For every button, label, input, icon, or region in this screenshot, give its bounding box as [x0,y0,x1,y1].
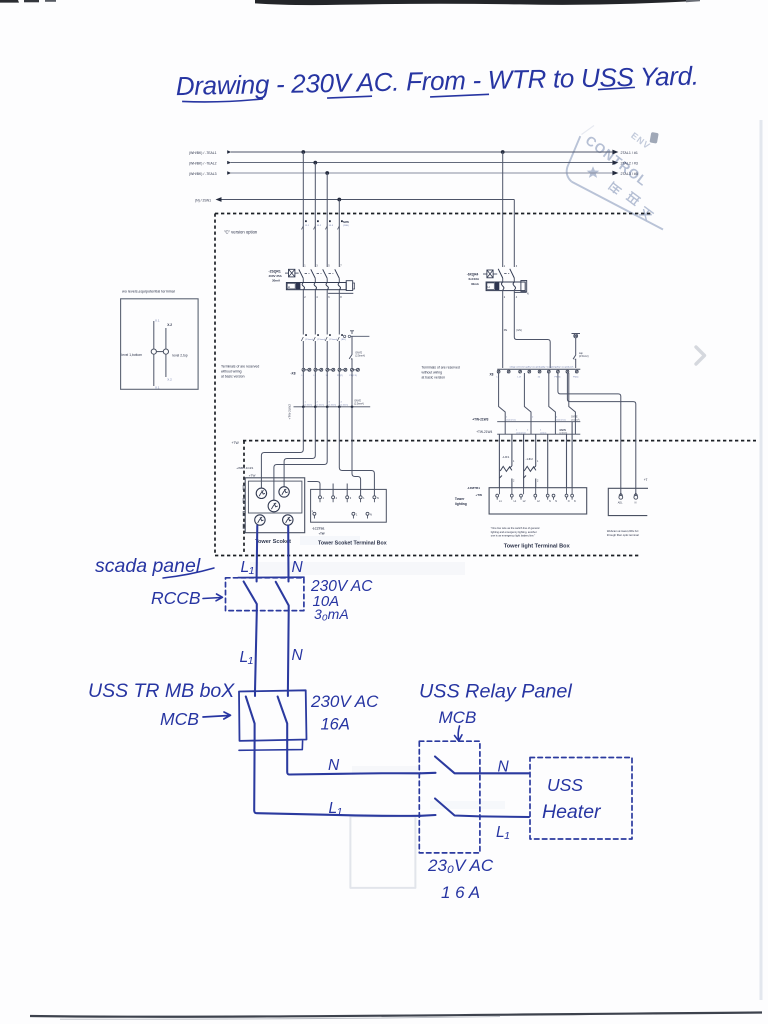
svg-text:(WH/BK) / -7EAL3: (WH/BK) / -7EAL3 [189,172,217,176]
svg-text:2: 2 [317,402,319,404]
svg-text:5/L3: 5/L3 [329,225,334,227]
svg-text:2: 2 [504,296,506,299]
svg-text:L1(2.5mm): L1(2.5mm) [506,420,516,422]
svg-text:4: 4 [556,417,558,419]
wire row +TW-2LW2 [288,400,371,420]
svg-text:lighting: lighting [455,502,467,506]
junction node N [337,198,341,202]
stamp star [587,166,600,178]
scan smudge bands [250,536,505,809]
svg-text:2TAL1 / #1: 2TAL1 / #1 [621,151,638,155]
svg-text:scada panel: scada panel [95,555,201,577]
svg-text:(WH/BK) / -7EAL1: (WH/BK) / -7EAL1 [189,151,217,155]
svg-text:Heater: Heater [542,801,602,823]
svg-text:at basic version: at basic version [221,375,245,379]
MCB pole L1 blade [246,691,255,741]
svg-text:2TAL2 / #3: 2TAL2 / #3 [621,161,638,165]
svg-text:N: N [370,513,372,517]
wire L1 lower run [254,741,420,816]
svg-text:(2.5mm²): (2.5mm²) [355,355,365,358]
svg-text:(2.5mm): (2.5mm) [341,405,349,407]
svg-text:1: 1 [516,430,518,432]
svg-text:2: 2 [336,496,338,500]
svg-text:L1: L1 [499,500,502,503]
svg-text:level 2,top: level 2,top [173,354,188,358]
svg-text:6xC16A: 6xC16A [469,277,481,281]
svg-text:one is as emergency light batt: one is as emergency light battery line." [491,534,536,538]
svg-text:16: 16 [538,377,541,379]
svg-text:(2.5mm): (2.5mm) [329,339,337,341]
svg-text:N: N [574,500,576,503]
svg-text:ADL: ADL [618,501,623,504]
tower light terminal box -1ZMTB1 [455,486,587,549]
svg-text:Terminals of are reserved: Terminals of are reserved [422,366,460,370]
page bottom edge line [30,1013,762,1017]
heater dashed box [530,758,632,840]
svg-text:(GN): (GN) [516,329,522,332]
svg-text:+TW: +TW [475,493,482,497]
svg-text:+TW: +TW [232,441,240,445]
svg-text:P5(5): P5(5) [573,377,579,379]
svg-text:-6XQR4: -6XQR4 [467,273,479,277]
webcam terminal box [607,478,648,537]
svg-text:L2: L2 [537,500,540,503]
svg-text:4: 4 [516,296,518,299]
svg-text:USS TR MB boX: USS TR MB boX [88,680,235,702]
RCCB breaker -2SQR1 [269,264,355,299]
arrow down to relay box [455,726,463,741]
wires X8 to 2LW2 row [303,371,352,407]
svg-text:N/PE: N/PE [343,220,349,224]
svg-text:N: N [292,647,304,664]
svg-text:30mA: 30mA [471,282,480,286]
svg-text:1: 1 [537,460,539,463]
bus L2 wire [189,160,638,165]
svg-text:1: 1 [513,460,515,463]
svg-text:"One live wire as the switch l: "One live wire as the switch line of gen… [491,526,540,530]
svg-text:30mA: 30mA [272,279,281,283]
svg-text:3: 3 [516,265,518,268]
svg-text:+TW-2LW2: +TW-2LW2 [288,404,292,420]
svg-text:1: 1 [506,417,508,419]
svg-text:2: 2 [532,417,534,419]
svg-text:X8: X8 [490,373,494,377]
top terminal ticks row [302,220,350,230]
wire L1 to heater [480,815,529,818]
stamp CJK glyph 1 [608,181,623,196]
reserved terminals note left [221,365,259,379]
webcam feeder wires [558,373,636,495]
wire drop 2 [314,163,316,267]
inner dashed +TW boundary [243,441,756,555]
svg-text:lighting and emergency lightin: lighting and emergency lighting, another [491,530,537,534]
svg-text:3: 3 [329,402,331,404]
wire drop right L [502,152,504,267]
svg-text:X.2: X.2 [167,323,172,327]
junction node L1 right tap [501,150,505,154]
svg-text:Webcam at tower,230v AC: Webcam at tower,230v AC [607,529,639,533]
svg-text:230V AC: 230V AC [310,692,379,711]
svg-text:(N) / 2SN1: (N) / 2SN1 [195,198,211,202]
svg-text:GNYE: GNYE [571,417,578,419]
svg-text:L2: L2 [523,500,526,503]
svg-text:L2(2.5mm): L2(2.5mm) [556,420,566,422]
svg-text:1: 1 [305,402,307,404]
svg-text:1: 1 [504,265,506,268]
stamp CJK glyph 3 [638,206,654,222]
svg-text:H: H [488,285,490,289]
svg-text:1: 1 [356,513,358,517]
wire drop 1 [302,152,304,267]
svg-text:(2.5mm²): (2.5mm²) [354,403,364,406]
svg-text:X.1: X.1 [155,319,160,323]
junction node L2 [313,161,317,165]
svg-text:(2.5mm²): (2.5mm²) [579,355,589,358]
wires below RCCB [303,290,339,335]
svg-text:N: N [328,757,340,774]
reserved terminals note right [422,366,460,380]
tower socket -1CZ1 [236,466,304,545]
svg-text:+TW: +TW [249,473,256,477]
svg-text:N: N [527,293,529,296]
wire N lower run [287,741,420,775]
svg-text:(2.5mm): (2.5mm) [317,339,325,341]
svg-text:Tower light Terminal Box: Tower light Terminal Box [504,544,571,550]
svg-text:Tower Scoket: Tower Scoket [255,539,291,545]
svg-text:N: N [498,759,510,776]
svg-text:(WH/BK) / -7EAL2: (WH/BK) / -7EAL2 [189,161,217,165]
equipotential terminal box [121,290,199,390]
svg-text:USS: USS [547,775,583,795]
svg-text:through fiber optic terminal: through fiber optic terminal [607,533,639,537]
handwritten title [175,61,698,103]
wire N to heater [480,772,529,774]
wire drop N [338,200,340,268]
socket fan wires [261,407,374,501]
CONTROL stamp [567,126,663,230]
svg-text:1: 1 [304,264,306,267]
svg-text:L₁: L₁ [241,559,255,576]
svg-text:(2.5mm): (2.5mm) [305,339,313,341]
svg-text:5: 5 [328,264,330,267]
svg-text:+TW-21W3: +TW-21W3 [472,418,488,422]
svg-text:voltage connection galley / oc: voltage connection galley / occupied gal… [510,365,574,368]
svg-text:RCCB: RCCB [151,588,201,608]
svg-text:2: 2 [527,430,529,432]
svg-text:4: 4 [341,402,343,404]
stamp grey chip [650,132,659,144]
svg-text:L1(2.5mm): L1(2.5mm) [516,432,526,434]
junction node L1 [301,150,305,154]
terminal strip -X8 left [291,368,360,377]
svg-text:ENV: ENV [629,130,652,151]
wire row +TW-21W3 [472,417,580,422]
svg-text:L2(2.5): L2(2.5) [540,432,547,434]
tower socket terminal box -1CZTB1 [311,489,387,546]
svg-text:Tower Scoket Terminal Box: Tower Scoket Terminal Box [318,541,387,547]
page top edge artifacts [0,0,700,5]
svg-text:1/L1: 1/L1 [305,225,310,227]
svg-text:3: 3 [350,496,352,500]
svg-text:400V 25A: 400V 25A [269,274,283,278]
svg-text:H: H [288,285,290,289]
svg-text:Tower: Tower [455,497,465,501]
isolator ticks row [301,331,369,341]
wire L1 from socket [256,526,259,578]
page right edge shade [760,120,763,1000]
svg-text:1 6 A: 1 6 A [441,883,480,902]
svg-text:PE: PE [504,329,508,332]
wire L1 mid [255,611,257,691]
svg-text:7: 7 [340,264,342,267]
bus L1 wire [189,150,638,155]
svg-text:23₀V AC: 23₀V AC [427,856,494,875]
svg-text:(2.5mm²): (2.5mm²) [571,419,580,422]
svg-text:2TAL3 / #5: 2TAL3 / #5 [621,172,638,176]
svg-text:at basic version: at basic version [422,376,446,380]
svg-text:N: N [555,500,557,503]
viewer chevron [696,347,705,364]
outer dashed enclosure [215,214,652,556]
stamp CJK glyph 2 [626,191,641,205]
relay panel dashed box [419,741,480,853]
svg-text:3/L2: 3/L2 [317,225,322,227]
svg-text:(2.5mm): (2.5mm) [317,405,325,407]
wire drop 3 [326,173,328,267]
svg-text:-1CZTB1: -1CZTB1 [312,527,325,531]
svg-text:4: 4 [316,296,318,299]
svg-text:L₁: L₁ [240,649,254,666]
svg-text:PE(2.5): PE(2.5) [350,375,358,377]
svg-text:(2SB): (2SB) [343,225,349,227]
relay switch N [420,757,480,774]
svg-text:+TW-21W4: +TW-21W4 [476,430,492,434]
svg-text:USS Relay Panel: USS Relay Panel [419,681,572,703]
svg-text:"C" version option: "C" version option [224,230,258,235]
svg-text:(2.5mm): (2.5mm) [305,405,313,407]
PE branch wire [303,336,352,368]
svg-text:2: 2 [537,480,539,483]
terminal strip X8 right [490,365,581,378]
svg-text:1: 1 [323,496,325,500]
svg-text:2: 2 [304,296,306,299]
svg-text:-1ZMTB1: -1ZMTB1 [467,486,480,490]
svg-text:-1JF1: -1JF1 [502,455,510,459]
svg-text:(2.5mm): (2.5mm) [329,405,337,407]
bus L3 wire [189,171,638,176]
svg-text:1: 1 [363,496,365,500]
wires below -6XQR4 [503,291,551,368]
svg-text:level 1,bottom: level 1,bottom [122,353,143,357]
svg-text:L₁: L₁ [496,824,510,841]
svg-text:X.1: X.1 [155,386,160,390]
svg-text:+WB1-1CZ1: +WB1-1CZ1 [236,466,253,470]
svg-text:X.2: X.2 [167,378,172,382]
RCCB pole L1 blade [244,578,257,611]
lamp switch -1JF2 [523,457,539,482]
junction node L3 [325,171,329,175]
svg-text:GNYE: GNYE [560,430,567,432]
wire row +TW-21W4 [476,430,580,435]
svg-text:-X8: -X8 [291,372,296,376]
svg-text:Terminals of are reserved: Terminals of are reserved [221,365,259,369]
svg-text:3₀mA: 3₀mA [314,606,349,622]
svg-text:N: N [568,500,570,503]
svg-text:N: N [377,496,379,500]
svg-text:N: N [635,501,637,504]
svg-text:-1JF2: -1JF2 [526,457,534,461]
svg-text:(BU): (BU) [341,339,346,341]
wire N mid [287,611,290,691]
breaker -6XQR4 [467,265,529,299]
relay switch L1 [420,799,480,817]
bus N wire [195,197,514,202]
wire N from socket [287,526,289,578]
svg-text:PE(2): PE(2) [337,375,343,377]
svg-text:wo levels,equipotential termin: wo levels,equipotential terminal [122,290,175,294]
svg-text:L17: L17 [518,377,522,379]
RCCB pole N blade [276,578,289,611]
MCB solid box [239,690,307,741]
MCB pole N blade [278,691,288,741]
svg-text:2: 2 [513,480,515,483]
svg-text:Drawing - 230V AC. From - WTR: Drawing - 230V AC. From - WTR to USS Yar… [175,61,698,101]
lamp switch -1JF1 [499,455,515,483]
svg-text:N: N [549,500,551,503]
RCCB dashed box [226,578,304,611]
svg-text:without wiring: without wiring [221,370,242,374]
wire drop right N [513,200,515,268]
svg-text:3: 3 [316,264,318,267]
PE pigtail right [572,334,581,369]
wires X8 right to 21W3 row [499,373,576,434]
svg-text:+TW: +TW [319,532,325,536]
svg-text:MCB: MCB [439,708,477,727]
svg-text:MCB: MCB [160,709,199,729]
svg-text:L1: L1 [514,500,517,503]
svg-text:16A: 16A [321,716,350,734]
svg-text:1: 1 [540,430,542,432]
erased pencil box [350,816,415,888]
wires 21W4 to tower light box [499,422,572,488]
svg-text:L₁: L₁ [329,800,343,817]
svg-text:8: 8 [340,296,342,299]
svg-text:+T: +T [644,478,648,482]
svg-text:without wiring: without wiring [422,371,443,375]
svg-text:6: 6 [328,296,330,299]
svg-text:-2SQR1: -2SQR1 [269,270,281,274]
svg-text:N: N [292,559,304,576]
